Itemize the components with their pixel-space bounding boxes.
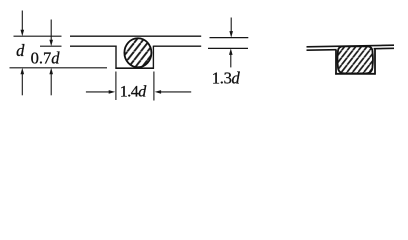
svg-text:1.4d: 1.4d (120, 84, 148, 101)
extension line 0.7d-top (40, 45, 62, 47)
extension line groove-bottom-left (10, 67, 108, 69)
dimension 1.4d (86, 72, 191, 101)
svg-text:0.7d: 0.7d (31, 48, 61, 67)
extension line bottom (208, 47, 248, 49)
groove bottom (115, 67, 154, 69)
O-ring cross-section circle (124, 38, 151, 67)
cover bottom line right (374, 47, 394, 49)
compressed O-ring hatched (337, 46, 373, 73)
groove left wall (115, 46, 117, 69)
wire surface line right of groove (153, 45, 201, 47)
svg-text:1.3d: 1.3d (212, 69, 241, 88)
groove bottom (335, 73, 375, 75)
groove right wall (374, 49, 376, 75)
dimension 0.7d arrows (49, 20, 53, 96)
dimension 1.3d (208, 18, 248, 68)
left arrow pointing right (86, 91, 110, 93)
extension line right (153, 72, 155, 101)
extension line top (210, 37, 249, 39)
wire cover bottom line left figure (70, 35, 201, 37)
extension line left (115, 72, 117, 101)
svg-text:d: d (16, 41, 25, 60)
cover bottom line left (307, 49, 337, 52)
groove left wall (335, 50, 337, 75)
dimension d arrows (21, 11, 25, 96)
cover top line (307, 45, 395, 47)
right figure: compressed O-ring (307, 45, 395, 74)
right arrow pointing left (161, 91, 192, 93)
extension line d-top (14, 35, 62, 37)
groove right wall (152, 46, 154, 69)
wire surface line left of groove (70, 45, 117, 47)
